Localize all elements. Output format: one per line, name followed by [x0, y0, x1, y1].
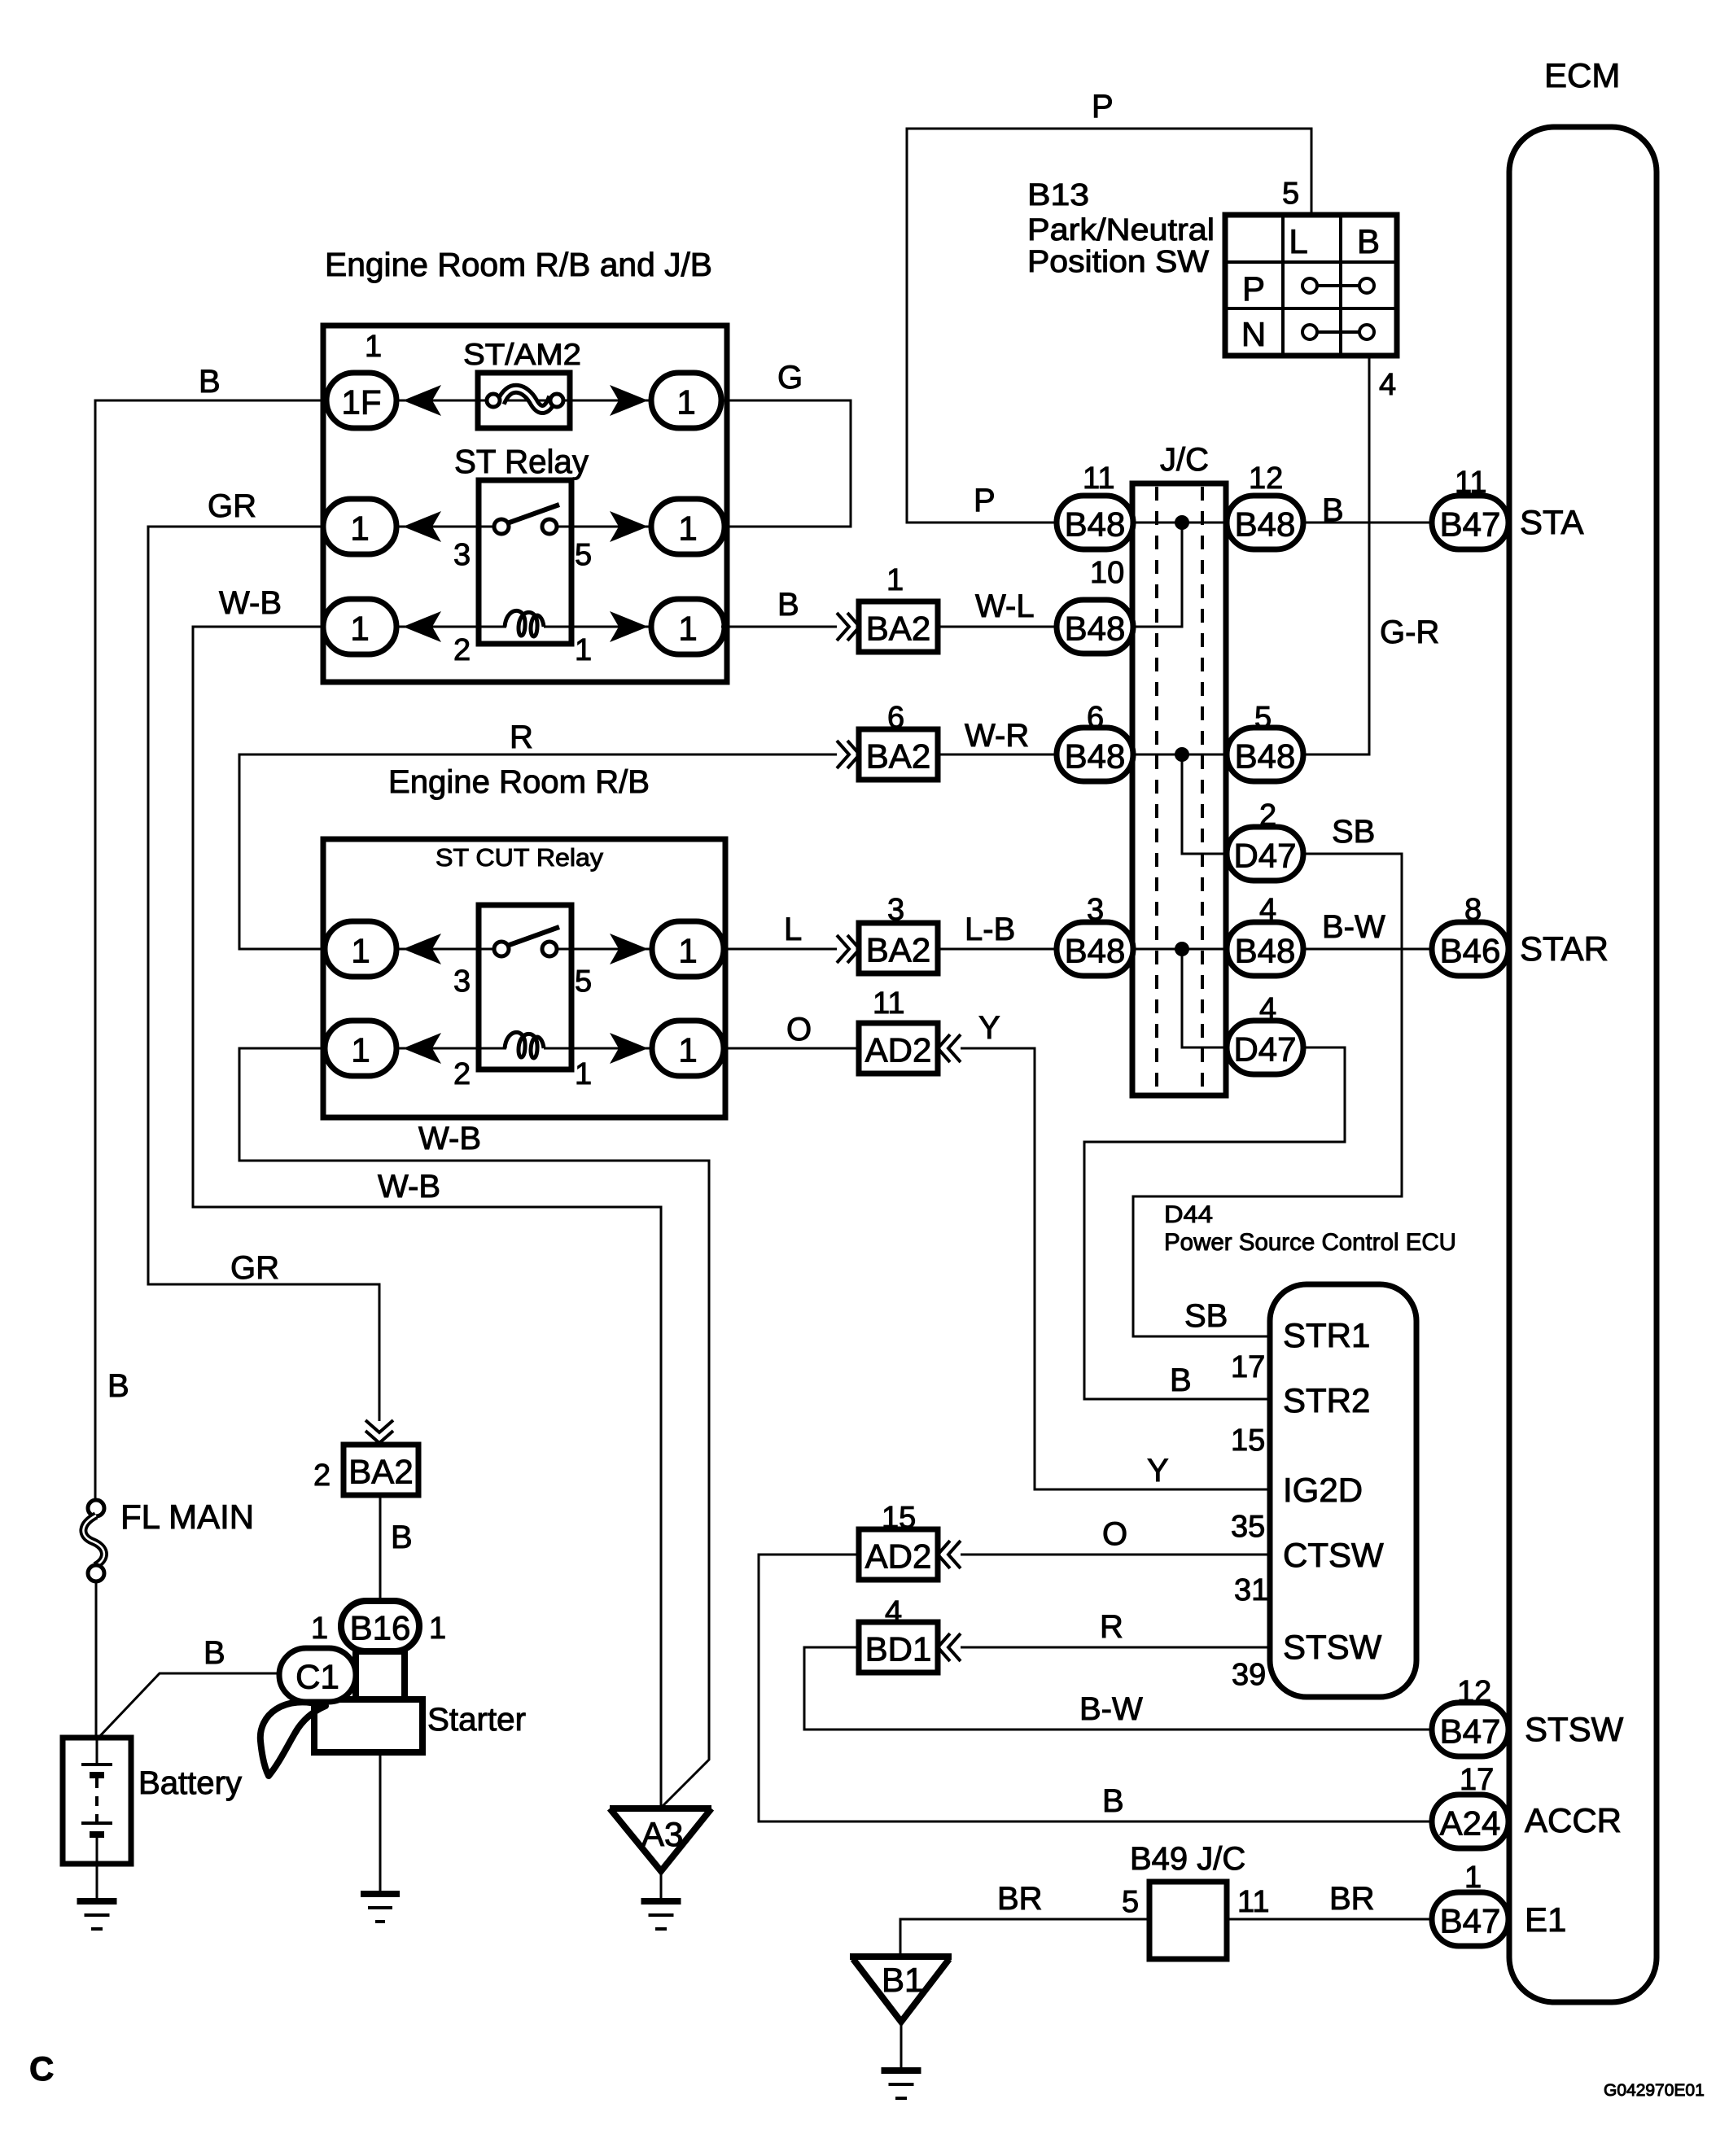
svg-text:B: B — [1357, 222, 1380, 260]
svg-text:Battery: Battery — [138, 1765, 242, 1801]
svg-text:B48: B48 — [1235, 505, 1296, 544]
svg-text:W-L: W-L — [975, 588, 1035, 624]
svg-text:2: 2 — [453, 1057, 471, 1091]
svg-text:G042970E01: G042970E01 — [1604, 2081, 1705, 2100]
svg-text:B: B — [391, 1520, 413, 1555]
svg-text:C1: C1 — [295, 1658, 339, 1696]
svg-text:ACCR: ACCR — [1525, 1801, 1622, 1839]
svg-text:35: 35 — [1231, 1510, 1265, 1544]
svg-text:5: 5 — [1122, 1885, 1139, 1919]
svg-text:1: 1 — [351, 932, 370, 970]
svg-text:1: 1 — [365, 330, 382, 364]
svg-text:GR: GR — [208, 488, 256, 524]
svg-text:BA2: BA2 — [866, 610, 930, 648]
svg-text:G: G — [777, 360, 803, 396]
svg-text:B47: B47 — [1440, 505, 1501, 544]
svg-text:5: 5 — [575, 964, 592, 999]
svg-text:B48: B48 — [1065, 932, 1126, 970]
svg-text:B: B — [199, 364, 221, 400]
svg-text:5: 5 — [575, 538, 592, 572]
svg-text:39: 39 — [1232, 1658, 1266, 1692]
svg-text:17: 17 — [1231, 1350, 1265, 1384]
svg-text:R: R — [1100, 1609, 1123, 1645]
svg-text:W-B: W-B — [418, 1121, 481, 1157]
svg-text:D47: D47 — [1233, 1030, 1296, 1069]
svg-text:1: 1 — [678, 932, 697, 970]
svg-text:CTSW: CTSW — [1283, 1536, 1384, 1574]
svg-text:B: B — [1102, 1783, 1124, 1819]
svg-text:R: R — [510, 719, 533, 755]
svg-text:Engine Room R/B: Engine Room R/B — [388, 764, 650, 800]
svg-text:Y: Y — [978, 1010, 1000, 1046]
svg-text:B: B — [1170, 1362, 1192, 1398]
svg-text:W-B: W-B — [219, 585, 282, 621]
svg-text:O: O — [1102, 1516, 1127, 1552]
svg-text:1: 1 — [351, 1031, 370, 1069]
svg-text:12: 12 — [1249, 461, 1283, 496]
svg-text:D44: D44 — [1164, 1201, 1213, 1228]
svg-text:B-W: B-W — [1322, 909, 1385, 945]
svg-text:BA2: BA2 — [348, 1453, 413, 1491]
svg-text:Power Source Control ECU: Power Source Control ECU — [1164, 1229, 1456, 1256]
svg-text:1: 1 — [676, 383, 695, 422]
svg-text:L-B: L-B — [965, 912, 1015, 947]
svg-text:ECM: ECM — [1544, 56, 1620, 94]
svg-text:SB: SB — [1332, 814, 1375, 850]
svg-text:FL MAIN: FL MAIN — [120, 1498, 254, 1536]
svg-text:1: 1 — [575, 1057, 592, 1091]
svg-text:11: 11 — [1083, 461, 1114, 496]
svg-text:B49 J/C: B49 J/C — [1130, 1841, 1245, 1877]
svg-text:2: 2 — [453, 633, 471, 667]
svg-text:AD2: AD2 — [865, 1537, 932, 1576]
svg-text:Position SW: Position SW — [1027, 245, 1209, 279]
svg-text:IG2D: IG2D — [1283, 1471, 1363, 1509]
svg-text:1: 1 — [678, 610, 697, 648]
svg-text:5: 5 — [1282, 177, 1299, 211]
svg-text:A24: A24 — [1440, 1804, 1501, 1843]
svg-text:B48: B48 — [1065, 610, 1126, 648]
svg-text:1: 1 — [678, 509, 697, 548]
svg-text:Park/Neutral: Park/Neutral — [1027, 213, 1215, 247]
svg-text:AD2: AD2 — [865, 1031, 932, 1069]
svg-text:GR: GR — [230, 1250, 279, 1286]
svg-text:N: N — [1241, 315, 1266, 353]
svg-text:STA: STA — [1520, 503, 1584, 541]
svg-text:1: 1 — [350, 610, 369, 648]
svg-text:W-B: W-B — [378, 1169, 440, 1205]
svg-text:11: 11 — [873, 986, 904, 1021]
svg-text:B48: B48 — [1235, 932, 1296, 970]
svg-text:3: 3 — [453, 964, 471, 999]
svg-text:31: 31 — [1234, 1573, 1268, 1607]
svg-text:Starter: Starter — [427, 1702, 526, 1738]
svg-text:B-W: B-W — [1079, 1691, 1143, 1727]
svg-text:B46: B46 — [1440, 932, 1501, 970]
svg-text:J/C: J/C — [1160, 442, 1209, 478]
svg-text:B48: B48 — [1065, 505, 1126, 544]
svg-text:3: 3 — [453, 538, 471, 572]
svg-text:P: P — [974, 483, 996, 518]
svg-text:STSW: STSW — [1283, 1628, 1382, 1666]
svg-text:BD1: BD1 — [865, 1630, 932, 1668]
svg-text:1: 1 — [429, 1612, 446, 1646]
svg-text:B48: B48 — [1235, 737, 1296, 776]
svg-text:2: 2 — [313, 1458, 330, 1493]
svg-text:1: 1 — [311, 1612, 328, 1646]
svg-text:STR1: STR1 — [1283, 1316, 1370, 1354]
svg-text:1F: 1F — [341, 383, 381, 422]
svg-text:STAR: STAR — [1520, 929, 1609, 968]
svg-text:L: L — [784, 912, 802, 947]
svg-text:B47: B47 — [1440, 1712, 1501, 1751]
svg-text:Engine Room R/B and J/B: Engine Room R/B and J/B — [325, 246, 712, 283]
svg-text:Y: Y — [1147, 1453, 1169, 1489]
svg-text:L: L — [1289, 222, 1307, 260]
svg-text:P: P — [1092, 89, 1114, 125]
svg-text:B13: B13 — [1027, 178, 1089, 212]
svg-text:10: 10 — [1090, 556, 1124, 590]
svg-text:1: 1 — [678, 1031, 697, 1069]
svg-text:W-R: W-R — [965, 718, 1029, 754]
svg-text:B: B — [107, 1368, 129, 1404]
svg-text:A3: A3 — [641, 1815, 683, 1853]
svg-text:ST/AM2: ST/AM2 — [463, 338, 581, 371]
svg-text:ST Relay: ST Relay — [454, 443, 589, 480]
svg-text:STSW: STSW — [1525, 1710, 1624, 1748]
svg-text:1: 1 — [886, 563, 904, 597]
svg-text:B48: B48 — [1065, 737, 1126, 776]
svg-text:B47: B47 — [1440, 1902, 1501, 1940]
svg-text:4: 4 — [1379, 368, 1396, 402]
svg-text:B: B — [204, 1635, 225, 1671]
svg-text:P: P — [1242, 269, 1265, 308]
svg-text:15: 15 — [1231, 1423, 1265, 1458]
svg-text:BA2: BA2 — [866, 931, 930, 969]
svg-text:O: O — [786, 1012, 812, 1047]
svg-text:SB: SB — [1184, 1298, 1228, 1334]
svg-text:1: 1 — [350, 509, 369, 548]
svg-text:B1: B1 — [882, 1961, 923, 1999]
svg-text:1: 1 — [575, 633, 592, 667]
svg-text:ST CUT Relay: ST CUT Relay — [436, 843, 604, 872]
svg-text:E1: E1 — [1525, 1900, 1566, 1939]
svg-text:G-R: G-R — [1380, 614, 1439, 650]
svg-text:STR2: STR2 — [1283, 1381, 1370, 1419]
svg-text:BR: BR — [997, 1881, 1043, 1917]
svg-text:BR: BR — [1329, 1881, 1375, 1917]
svg-text:B: B — [777, 587, 799, 623]
svg-text:BA2: BA2 — [866, 737, 930, 776]
svg-text:D47: D47 — [1233, 837, 1296, 875]
svg-text:11: 11 — [1237, 1885, 1269, 1919]
svg-text:B16: B16 — [350, 1609, 411, 1647]
svg-text:C: C — [29, 2049, 54, 2088]
